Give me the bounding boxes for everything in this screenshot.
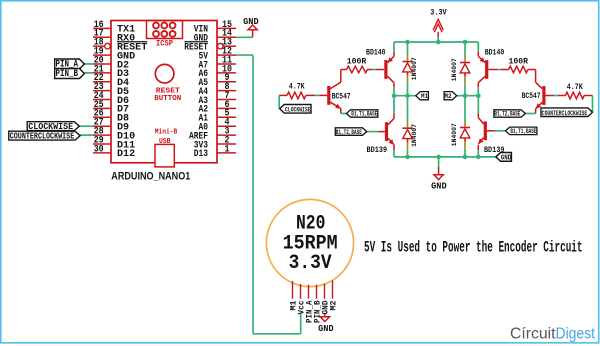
junction bottom c bbox=[463, 155, 468, 160]
svg-text:BC547: BC547 bbox=[332, 93, 351, 101]
junction mid-right b bbox=[476, 93, 481, 98]
R3 value label 4.7K bbox=[567, 84, 583, 92]
U1 pin 15 VIN bbox=[194, 19, 236, 36]
net tag B1,T2,BASE (left) bbox=[335, 128, 366, 136]
U1 pin 24 D6 bbox=[93, 90, 129, 107]
net tag COUNTERCLOCKWISE (bridge) bbox=[541, 108, 592, 117]
wire pin14 to GND bbox=[236, 36, 253, 38]
mini-B USB box bbox=[155, 144, 174, 167]
net tag B1,T1,BASE (left) bbox=[346, 110, 377, 118]
U1 pin 19 GND bbox=[93, 45, 135, 62]
svg-text:3.3V: 3.3V bbox=[289, 252, 332, 275]
Q6 collector wire bbox=[535, 70, 537, 83]
svg-text:BD140: BD140 bbox=[366, 50, 386, 58]
Q5 base pin bbox=[320, 94, 328, 96]
motor pin label PIN_B bbox=[313, 301, 323, 324]
U1 reference ARDUINO_NANO1 bbox=[111, 171, 190, 183]
ICSP header on U1 bbox=[147, 21, 183, 49]
wire BD139-right collector bbox=[477, 96, 479, 118]
Q2 base pin bbox=[488, 69, 497, 71]
svg-text:30: 30 bbox=[94, 143, 104, 155]
motor label 15RPM bbox=[283, 232, 338, 255]
U1 pin 7 A3 bbox=[199, 90, 237, 107]
svg-text:PIN_B: PIN_B bbox=[56, 69, 79, 80]
svg-text:ARDUINO_NANO1: ARDUINO_NANO1 bbox=[111, 171, 190, 183]
junction top rail right bbox=[463, 40, 468, 45]
svg-text:GND: GND bbox=[431, 181, 447, 192]
svg-text:BD139: BD139 bbox=[484, 147, 505, 155]
motor pin M1 bbox=[292, 281, 294, 299]
svg-text:B1,T2,BASE: B1,T2,BASE bbox=[494, 111, 520, 118]
diode D4 1N4007 bbox=[451, 96, 470, 157]
motor pin label PIN_A bbox=[305, 300, 315, 323]
svg-text:100R: 100R bbox=[347, 58, 367, 66]
transistor Q2 BD140 (right) bbox=[478, 56, 488, 82]
Q6 emitter stub bbox=[535, 109, 537, 114]
net tag CLOCKWISE bbox=[27, 121, 79, 132]
junction bottom d bbox=[476, 155, 481, 160]
motor pin label M1 bbox=[289, 301, 299, 311]
U1 pin 28 D10 bbox=[93, 125, 135, 142]
svg-text:B1,T2,BASE: B1,T2,BASE bbox=[336, 129, 362, 136]
wire 5V pin12 to motor Vcc bbox=[236, 55, 301, 334]
U1 pin 27 D9 bbox=[93, 117, 129, 134]
power symbol GND (bridge) bbox=[431, 157, 447, 192]
U1 pin 3 AREF bbox=[189, 125, 236, 142]
svg-text:BC547: BC547 bbox=[522, 93, 541, 101]
U1 pin 29 D11 bbox=[93, 134, 135, 151]
svg-text:BD139: BD139 bbox=[367, 147, 388, 155]
U1 pin 4 A0 bbox=[199, 117, 237, 134]
wire mid rail left to M1 bbox=[394, 95, 416, 97]
transistor Q3 BD139 (left) bbox=[385, 118, 394, 144]
svg-text:GND: GND bbox=[243, 16, 259, 27]
transistor Q1 BD140 (left) bbox=[384, 56, 394, 82]
motor pin M2 bbox=[332, 281, 334, 299]
transistor Q4 BD139 (right) bbox=[478, 118, 487, 144]
R2 value label 100R bbox=[347, 58, 367, 66]
svg-text:1N4007: 1N4007 bbox=[411, 57, 418, 80]
motor pin PIN_B bbox=[316, 285, 318, 299]
svg-text:M2: M2 bbox=[329, 301, 339, 311]
U1 pin 11 A7 bbox=[199, 54, 237, 71]
U1 pin 18 RESET bbox=[93, 37, 147, 54]
U1 pin 20 D2 bbox=[93, 54, 129, 71]
svg-text:D12: D12 bbox=[117, 148, 135, 160]
svg-text:1N4007: 1N4007 bbox=[411, 124, 418, 147]
wire 3.3V top rail bbox=[394, 41, 478, 43]
net tag B1,T2,BASE (right) bbox=[494, 110, 525, 118]
svg-text:BD140: BD140 bbox=[485, 50, 505, 58]
motor pin PIN_A bbox=[308, 285, 310, 299]
U1 pin 16 TX1 bbox=[93, 19, 135, 36]
junction mid-right a bbox=[463, 93, 468, 98]
Q1 value label BD140 bbox=[366, 50, 386, 58]
reset button label bbox=[154, 88, 181, 103]
junction top rail 3.3V bbox=[436, 40, 441, 45]
svg-text:B1,T1,BASE: B1,T1,BASE bbox=[510, 128, 536, 135]
Q4 value label BD139 bbox=[484, 147, 505, 155]
svg-text:BUTTON: BUTTON bbox=[154, 95, 181, 103]
wire 100R-left to Q1 base bbox=[372, 69, 376, 71]
svg-text:GND: GND bbox=[318, 323, 334, 334]
wire BD139-right emitter bbox=[477, 145, 479, 157]
diode D2 1N4007 bbox=[403, 96, 419, 157]
net tag M2 bbox=[444, 92, 457, 100]
wire pin20 to PIN_A tag bbox=[84, 63, 93, 65]
transistor Q5 BC547 (left) bbox=[327, 82, 341, 108]
svg-text:Mini-B: Mini-B bbox=[155, 129, 178, 137]
motor pin label GND bbox=[321, 301, 331, 315]
Q6 base pin bbox=[546, 95, 554, 97]
R1 value label 4.7K bbox=[289, 84, 305, 92]
wire BD140-right collector bbox=[477, 83, 479, 96]
wire BD140-left collector bbox=[393, 83, 395, 96]
svg-text:CLOCKWISE: CLOCKWISE bbox=[28, 121, 73, 132]
U1 pin 2 3V3 bbox=[194, 134, 236, 151]
Q5 emitter stub bbox=[340, 109, 342, 114]
svg-text:COUNTERCLOCKWISE: COUNTERCLOCKWISE bbox=[10, 132, 75, 142]
wire tag to Q4 base bbox=[495, 130, 506, 132]
svg-text:CLOCKWISE: CLOCKWISE bbox=[285, 107, 311, 114]
junction mid-left b bbox=[405, 93, 410, 98]
resistor R4 100R (right) bbox=[501, 66, 536, 73]
wire 4.7K-left to Q5 base bbox=[315, 94, 320, 96]
junction top rail left bbox=[405, 40, 410, 45]
U1 pin 13 RESET bbox=[184, 37, 236, 54]
net tag B1,T1,BASE (right) bbox=[506, 127, 537, 135]
svg-text:ICSP: ICSP bbox=[156, 39, 173, 48]
U1 pin 14 GND bbox=[194, 28, 236, 45]
U1 pin 17 RX0 bbox=[93, 28, 135, 45]
net tag GND bbox=[496, 153, 512, 163]
Q6 value label BC547 bbox=[522, 93, 541, 101]
resistor R3 4.7K (right) bbox=[558, 92, 592, 99]
U1 pin 26 D8 bbox=[93, 108, 129, 125]
wire Q6 base to 4.7K-right bbox=[554, 95, 559, 97]
resistor R2 100R (left) bbox=[341, 66, 372, 73]
diode D3 1N4007 bbox=[451, 42, 470, 96]
wire pin27 to CLOCKWISE tag bbox=[79, 125, 93, 127]
wire tag to Q3 base bbox=[367, 131, 378, 133]
Q3 base pin bbox=[378, 131, 385, 133]
wire Q2 base to 100R-right bbox=[498, 69, 501, 71]
power symbol GND (top) bbox=[243, 16, 259, 37]
R4 value label 100R bbox=[509, 58, 529, 66]
motor pin Vcc bbox=[300, 284, 302, 299]
U1 pin 25 D7 bbox=[93, 99, 129, 116]
svg-text:Digest: Digest bbox=[556, 326, 596, 343]
Q1 base pin bbox=[376, 69, 385, 71]
net tag PIN_A bbox=[55, 59, 85, 70]
resistor R1 4.7K (left) bbox=[279, 92, 315, 99]
U1 pin 22 D4 bbox=[93, 72, 129, 89]
motor pin GND bbox=[324, 284, 326, 299]
U1 pin 21 D3 bbox=[93, 63, 129, 80]
motor label 3.3V bbox=[289, 252, 332, 275]
wire pin28 to COUNTERCLOCKWISE tag bbox=[80, 134, 93, 136]
note text bbox=[364, 238, 583, 256]
wire BD139-left emitter bbox=[393, 145, 395, 157]
junction bottom b bbox=[436, 155, 441, 160]
wire pin21 to PIN_B tag bbox=[84, 72, 93, 74]
power symbol GND (motor) bbox=[318, 314, 334, 334]
svg-text:4.7K: 4.7K bbox=[567, 84, 583, 92]
motor pin label M2 bbox=[329, 301, 339, 311]
svg-text:M2: M2 bbox=[445, 93, 452, 100]
svg-text:4.7K: 4.7K bbox=[289, 84, 305, 92]
motor label N20 bbox=[296, 213, 326, 236]
power symbol 3.3V bbox=[430, 7, 447, 42]
U1 pin 30 D12 bbox=[93, 143, 135, 160]
U1 pin 5 A1 bbox=[199, 108, 237, 125]
svg-text:Círcuit: Círcuit bbox=[510, 326, 556, 343]
wire BD140-right emitter bbox=[477, 42, 479, 56]
U1 pin 9 A5 bbox=[199, 72, 237, 89]
wire BD140-left emitter bbox=[393, 42, 395, 56]
motor pin label Vcc bbox=[297, 301, 307, 315]
svg-text:GND: GND bbox=[501, 154, 512, 162]
wire mid rail M2 to right bbox=[457, 95, 479, 97]
reset button circle on U1 bbox=[155, 64, 174, 83]
svg-text:5V Is Used to Power the Encode: 5V Is Used to Power the Encoder Circuit bbox=[364, 238, 583, 256]
svg-text:3.3V: 3.3V bbox=[430, 7, 447, 17]
Q3 value label BD139 bbox=[367, 147, 388, 155]
U1 pin 1 D13 bbox=[194, 143, 236, 160]
svg-text:M1: M1 bbox=[421, 93, 428, 100]
svg-text:1N4007: 1N4007 bbox=[451, 123, 458, 146]
Q5 collector wire bbox=[340, 70, 342, 83]
junction bottom a bbox=[405, 155, 410, 160]
svg-text:D13: D13 bbox=[194, 148, 208, 160]
U1 pin 8 A4 bbox=[199, 81, 237, 98]
svg-text:100R: 100R bbox=[509, 58, 529, 66]
svg-text:B1,T1,BASE: B1,T1,BASE bbox=[351, 111, 377, 118]
net tag COUNTERCLOCKWISE bbox=[9, 131, 80, 141]
wire 4.7K-right down to COUNTERCLOCKWISE tag bbox=[592, 96, 594, 113]
U1 pin 23 D5 bbox=[93, 81, 129, 98]
wire 4.7K-left down to CLOCKWISE tag bbox=[278, 95, 280, 108]
arduino nano U1 body bbox=[111, 21, 217, 163]
net tag CLOCKWISE (bridge) bbox=[280, 105, 311, 114]
U1 pin 6 A2 bbox=[199, 99, 237, 116]
svg-text:1: 1 bbox=[225, 143, 230, 155]
net tag M1 bbox=[416, 92, 429, 100]
U1 pin 10 A6 bbox=[199, 63, 237, 80]
wire BD139-left collector bbox=[393, 96, 395, 119]
svg-text:1N4007: 1N4007 bbox=[451, 58, 458, 81]
motor M1 N20 body bbox=[266, 199, 353, 286]
svg-text:COUNTERCLOCKWISE: COUNTERCLOCKWISE bbox=[542, 110, 588, 117]
transistor Q6 BC547 (right) bbox=[536, 82, 546, 108]
mini-B USB label bbox=[155, 129, 178, 147]
wire ground bottom rail bbox=[394, 156, 495, 158]
wire tag to Q6 emitter bbox=[525, 113, 535, 115]
Q4 base pin bbox=[487, 130, 495, 132]
Q2 value label BD140 bbox=[485, 50, 505, 58]
U1 pin 12 5V bbox=[199, 45, 237, 62]
net tag PIN_B bbox=[55, 69, 85, 80]
diode D1 1N4007 bbox=[403, 42, 419, 96]
Q5 value label BC547 bbox=[332, 93, 351, 101]
CircuitDigest logo bbox=[510, 326, 596, 343]
wire Q5 emitter to tag bbox=[341, 113, 347, 115]
junction mid-left a bbox=[392, 93, 397, 98]
